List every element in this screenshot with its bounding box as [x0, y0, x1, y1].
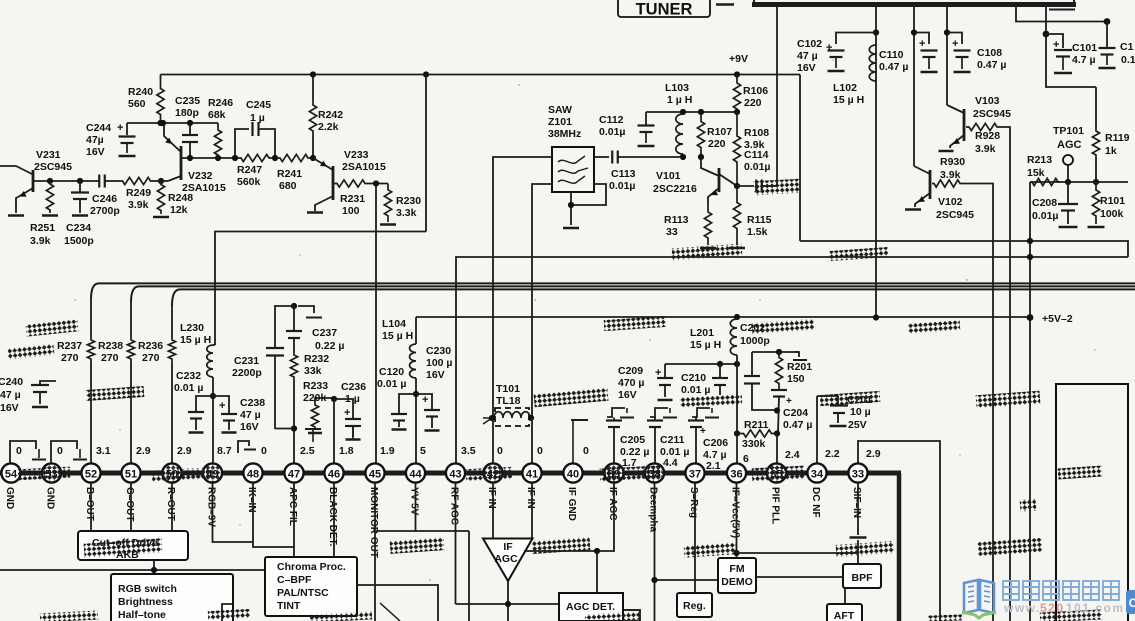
svg-text:44: 44 [409, 468, 422, 480]
svg-text:1000p: 1000p [740, 335, 770, 347]
node R246 bottom [215, 155, 221, 161]
svg-text:4.4: 4.4 [663, 457, 678, 469]
svg-text:C211: C211 [660, 434, 685, 446]
svg-text:IF IN: IF IN [486, 487, 497, 509]
waveform glyph pin48 [238, 441, 249, 453]
svg-text:+9V: +9V [729, 53, 748, 65]
svg-text:RGB switch: RGB switch [118, 583, 177, 595]
resistor R108 [733, 112, 740, 186]
svg-text:AGC: AGC [1057, 139, 1082, 151]
svg-text:R232: R232 [304, 353, 329, 365]
svg-text:16V: 16V [86, 146, 105, 158]
wire V231 base [33, 180, 95, 182]
svg-text:C234: C234 [66, 222, 91, 234]
node AGC drop a [1027, 238, 1033, 244]
hatch bus 42-43 [466, 467, 513, 481]
svg-text:2.4: 2.4 [785, 449, 800, 461]
node fm demo left [651, 577, 657, 583]
svg-text:RF AGC: RF AGC [448, 487, 459, 525]
svg-text:3.5: 3.5 [461, 445, 476, 457]
svg-text:51: 51 [125, 468, 137, 480]
svg-text:0.1: 0.1 [1121, 54, 1135, 66]
node L201 bottom [734, 361, 740, 367]
svg-text:R211: R211 [744, 419, 769, 431]
svg-text:33: 33 [852, 468, 864, 480]
svg-text:+: + [1053, 39, 1059, 51]
svg-text:BPF: BPF [852, 572, 874, 584]
svg-text:0.01µ: 0.01µ [599, 126, 626, 138]
svg-text:0: 0 [16, 445, 22, 457]
wire pin45 monitor down [374, 483, 376, 621]
node R108 top [734, 109, 740, 115]
capacitor C232 [196, 396, 213, 411]
node C235 bottom [187, 155, 193, 161]
capacitor C103 [1106, 22, 1108, 48]
svg-text:C244: C244 [86, 122, 111, 134]
wire AGC node [1030, 181, 1128, 183]
ground V103 [939, 150, 954, 153]
svg-text:C102: C102 [797, 38, 822, 50]
resistor R115 [733, 186, 740, 245]
svg-text:270: 270 [142, 352, 160, 364]
capacitor C112 [638, 124, 655, 126]
svg-text:2SA1015: 2SA1015 [182, 182, 226, 194]
svg-text:8.7: 8.7 [217, 445, 232, 457]
wire C209 C210 rail [665, 363, 738, 365]
node APC top [291, 303, 297, 309]
node V232 emitter [160, 120, 166, 126]
hatch bottom mid a [310, 611, 372, 621]
wire pin52 to cutoff [90, 483, 92, 532]
svg-text:15 µ H: 15 µ H [180, 334, 211, 346]
svg-text:15 µ H: 15 µ H [690, 339, 721, 351]
waveform glyph C211 [650, 408, 668, 417]
svg-text:R119: R119 [1105, 132, 1130, 144]
svg-text:47 µ: 47 µ [240, 409, 261, 421]
node rail-x426 [423, 71, 429, 77]
svg-text:0.01µ: 0.01µ [1032, 210, 1059, 222]
node TP101 [1065, 179, 1071, 185]
resistor R233 [315, 398, 334, 402]
svg-text:Deempha: Deempha [647, 487, 658, 532]
svg-text:2.5: 2.5 [300, 445, 315, 457]
svg-text:IF–Vcc(5V): IF–Vcc(5V) [729, 487, 740, 538]
inductor L230 column [213, 344, 215, 346]
svg-text:R230: R230 [396, 195, 421, 207]
svg-text:0: 0 [537, 445, 543, 457]
svg-text:C236: C236 [341, 381, 366, 393]
resistor R232 [290, 352, 297, 380]
hatch triangle right [532, 537, 591, 554]
svg-text:220k: 220k [303, 392, 327, 404]
IC pin 53 GND [42, 463, 61, 482]
svg-text:1 µ: 1 µ [345, 393, 360, 405]
svg-text:45: 45 [369, 468, 381, 480]
wire L103 top [646, 111, 737, 113]
wire +5V-2 line [416, 316, 1030, 318]
IC pin 33 SIF–IN [848, 463, 867, 482]
resistor R107 [697, 114, 704, 155]
svg-text:APC FIL: APC FIL [287, 487, 298, 526]
inductor L103 [676, 114, 683, 154]
svg-text:6: 6 [743, 453, 749, 465]
IC shield box bottom edge (top bar) [752, 2, 1076, 7]
wire sif agc link [737, 552, 859, 554]
IC pin 52 B–OUT [81, 463, 100, 482]
waveform glyph pin47 upper [305, 428, 321, 430]
svg-text:1k: 1k [1105, 145, 1117, 157]
svg-text:+: + [219, 400, 225, 412]
svg-text:PAL/NTSC: PAL/NTSC [277, 587, 329, 599]
wire C244-C235 top [127, 122, 218, 124]
wire IC drop V103 [946, 6, 948, 105]
ground SIF [850, 536, 867, 539]
IC pin 34 DC NF [807, 463, 826, 482]
svg-text:IF: IF [503, 541, 513, 553]
svg-text:R107: R107 [707, 126, 732, 138]
svg-text:YV 5V: YV 5V [408, 487, 419, 516]
svg-text:101.com: 101.com [1066, 601, 1125, 615]
wire +9V rail [161, 74, 801, 76]
node C235 top [187, 120, 193, 126]
svg-text:0.01µ: 0.01µ [744, 161, 771, 173]
transistor V232 [180, 146, 183, 180]
svg-text:AGC DET.: AGC DET. [566, 601, 615, 613]
svg-text:C110: C110 [879, 49, 904, 61]
hatch C114 [754, 179, 801, 195]
svg-text:R106: R106 [743, 85, 768, 97]
wire pin50 to cutoff [171, 483, 173, 532]
hatch bus 38-39 [600, 465, 663, 481]
svg-text:560: 560 [128, 98, 146, 110]
resistor R928 [966, 123, 1000, 130]
svg-text:L102: L102 [833, 82, 857, 94]
capacitor C108 [947, 33, 962, 45]
svg-text:3.9k: 3.9k [30, 235, 51, 247]
wire C114 to IC [776, 6, 778, 186]
svg-text:3.9k: 3.9k [128, 199, 149, 211]
svg-text:DEMO: DEMO [721, 576, 753, 588]
transformer T101 [495, 408, 529, 426]
svg-text:40: 40 [567, 468, 579, 480]
svg-text:IF AGC: IF AGC [607, 487, 618, 521]
watermark book icon [964, 580, 994, 613]
IC pin 48 IK–IN [243, 463, 262, 482]
svg-text:C204: C204 [783, 407, 808, 419]
svg-text:+5V–2: +5V–2 [1042, 313, 1073, 325]
resistor R236 column [171, 306, 173, 337]
svg-text:100: 100 [342, 205, 360, 217]
svg-text:SAW: SAW [548, 104, 572, 116]
svg-text:2SC945: 2SC945 [973, 108, 1011, 120]
capacitor C114 [737, 185, 754, 187]
resistor R240 [160, 75, 162, 81]
hatch half-tone [208, 609, 250, 620]
hatch R237 area [86, 386, 145, 401]
hatch sif ground [836, 541, 895, 557]
wire pin44 below [415, 483, 417, 532]
svg-text:46: 46 [328, 468, 340, 480]
svg-text:12k: 12k [170, 204, 188, 216]
node apex agc det [505, 601, 511, 607]
svg-text:47: 47 [288, 468, 300, 480]
svg-text:220: 220 [708, 138, 726, 150]
svg-text:TINT: TINT [277, 600, 301, 612]
svg-text:+: + [700, 426, 706, 437]
svg-text:560k: 560k [237, 176, 261, 188]
resistor R238 column [130, 302, 132, 337]
hatch watermark top [978, 538, 1043, 556]
svg-text:GND: GND [4, 487, 15, 509]
ground hatch R113 R115 [672, 244, 743, 261]
box small AGC aux [623, 610, 640, 621]
svg-text:C237: C237 [312, 327, 337, 339]
svg-text:C205: C205 [620, 434, 645, 446]
waveform glyph R201 [795, 352, 799, 357]
svg-text:2.1: 2.1 [706, 460, 721, 472]
hatch bottom left corner [40, 610, 98, 621]
svg-text:16V: 16V [0, 402, 19, 414]
wire SAW pin2 [532, 184, 552, 418]
resistor R101 [1092, 182, 1099, 224]
svg-text:3.3k: 3.3k [396, 207, 417, 219]
svg-text:+: + [919, 38, 925, 50]
svg-text:www.: www. [1003, 601, 1041, 615]
svg-text:Brightness: Brightness [118, 596, 173, 608]
IC pin 50 R–OUT [162, 463, 181, 482]
wire pin34 column [816, 396, 818, 463]
wire V232 base rail [181, 157, 238, 159]
wire AGC line to pin43 [456, 257, 1128, 463]
capacitor C246 [98, 175, 100, 188]
svg-text:+: + [655, 367, 661, 379]
hatch left a [26, 319, 79, 336]
wire pin36 stub [736, 434, 738, 464]
svg-text:R233: R233 [303, 380, 328, 392]
svg-text:R930: R930 [940, 156, 965, 168]
ground V233 [307, 211, 323, 214]
node C114 [734, 183, 740, 189]
transistor V231 [0, 166, 33, 175]
waveform glyph pin53 [51, 441, 77, 463]
svg-text:2700p: 2700p [90, 205, 120, 217]
waveform glyph pin40 [571, 419, 588, 421]
svg-text:R236: R236 [138, 340, 163, 352]
hatch pin36 branch [684, 542, 737, 558]
node C210 top [717, 361, 723, 367]
svg-text:DC NF: DC NF [810, 487, 821, 518]
svg-text:R247: R247 [237, 164, 262, 176]
svg-text:0: 0 [261, 445, 267, 457]
svg-text:G–OUT: G–OUT [124, 487, 135, 521]
svg-text:PIF PLL: PIF PLL [769, 487, 780, 524]
svg-text:C210: C210 [681, 372, 706, 384]
svg-text:T101: T101 [496, 383, 520, 395]
transistor V102 [914, 166, 930, 174]
capacitor C202 [751, 352, 753, 375]
node rail-R106 [734, 71, 740, 77]
wire IC to R119 [1046, 34, 1096, 87]
svg-text:100 µ: 100 µ [426, 357, 453, 369]
svg-text:0.47 µ: 0.47 µ [783, 419, 812, 431]
node R231-R230 [373, 180, 379, 186]
svg-text:C209: C209 [618, 365, 643, 377]
hatch C201 label [820, 391, 881, 406]
wire fm demo left [655, 579, 719, 581]
svg-text:C230: C230 [426, 345, 451, 357]
svg-text:Chroma Proc.: Chroma Proc. [277, 561, 346, 573]
node R211 right [774, 430, 780, 436]
svg-text:V103: V103 [975, 95, 1000, 107]
svg-text:S–Reg: S–Reg [688, 487, 699, 518]
resistor R930 [932, 180, 962, 187]
IC pin 39 IF AGC [604, 463, 623, 482]
node C245 right [272, 155, 278, 161]
wire triangle apex down [507, 581, 509, 621]
svg-text:270: 270 [61, 352, 79, 364]
svg-text:TUNER: TUNER [636, 1, 693, 19]
svg-text:15 µ H: 15 µ H [382, 330, 413, 342]
IC pin 37 S–Reg [685, 463, 704, 482]
svg-text:1 µ: 1 µ [250, 112, 265, 124]
svg-text:C232: C232 [176, 370, 201, 382]
svg-text:BLACK DET.: BLACK DET. [327, 487, 338, 547]
box FM DEMO [718, 558, 756, 593]
IC pin 35 PIF PLL [767, 463, 786, 482]
wire pin43 below [455, 483, 457, 605]
op-amp IF AGC triangle [483, 539, 533, 582]
node C108 top [944, 29, 950, 35]
wire RGB bundle line2 [131, 286, 1135, 302]
capacitor C230 [416, 394, 432, 409]
waveform glyph APC [298, 306, 314, 313]
svg-text:680: 680 [279, 180, 297, 192]
svg-text:V231: V231 [36, 149, 61, 161]
resistor R248 [157, 181, 164, 214]
hatch bottom right corner [1040, 609, 1102, 621]
wire SAW input [493, 157, 552, 418]
wire +9V drop right [799, 75, 801, 242]
svg-text:+: + [826, 42, 832, 54]
waveform glyph C206 [692, 408, 710, 417]
svg-text:R240: R240 [128, 86, 153, 98]
wire stray diagonal [380, 603, 400, 621]
svg-text:470 µ: 470 µ [618, 377, 645, 389]
svg-text:L103: L103 [665, 82, 689, 94]
wire pin33 loop [858, 441, 940, 621]
IC pin 43 RF AGC [446, 463, 465, 482]
node C234 [77, 178, 83, 184]
svg-text:+: + [786, 396, 792, 407]
wire SAW ground [570, 192, 572, 225]
node R119 bottom [1093, 179, 1099, 185]
node R248 top [158, 178, 164, 184]
capacitor C231 [275, 306, 294, 347]
svg-text:2SA1015: 2SA1015 [342, 161, 386, 173]
hatch x1030 line [1020, 498, 1037, 511]
IC pin 45 MONITOR OUT [365, 463, 384, 482]
wire pin41 to triangle [531, 483, 533, 539]
hatch right mid a [830, 247, 889, 261]
wire pin39 below [524, 483, 614, 552]
box RGB switch [111, 574, 233, 621]
svg-text:C–BPF: C–BPF [277, 574, 312, 586]
node L103 top [680, 109, 686, 115]
node C102 top [873, 29, 879, 35]
svg-text:33k: 33k [304, 365, 322, 377]
svg-text:R113: R113 [664, 214, 689, 226]
resistor R211 [739, 430, 776, 437]
capacitor C237 [293, 306, 295, 330]
resistor R237 column [90, 299, 92, 337]
svg-text:Reg.: Reg. [683, 600, 706, 612]
svg-text:0.01 µ: 0.01 µ [377, 378, 406, 390]
svg-text:R242: R242 [318, 109, 343, 121]
wire IC drop V102 [913, 6, 915, 166]
node C103 top [1104, 18, 1111, 25]
svg-text:270: 270 [101, 352, 119, 364]
svg-text:180p: 180p [175, 107, 199, 119]
svg-text:R928: R928 [975, 130, 1000, 142]
node C101 top [1043, 31, 1050, 38]
wire pin47 to chroma [293, 483, 295, 558]
IC pin 51 G–OUT [121, 463, 140, 482]
box AGC DET [559, 593, 623, 621]
transistor V101 [701, 157, 719, 176]
svg-text:V233: V233 [344, 149, 369, 161]
svg-text:0.01 µ: 0.01 µ [681, 384, 710, 396]
svg-text:C240: C240 [0, 376, 23, 388]
svg-text:L104: L104 [382, 318, 406, 330]
capacitor C234 [79, 181, 81, 192]
transistor V103 [947, 105, 964, 113]
node R107 top [698, 109, 704, 115]
svg-text:R246: R246 [208, 97, 233, 109]
svg-text:C246: C246 [92, 193, 117, 205]
svg-text:V232: V232 [188, 170, 213, 182]
svg-text:2.9: 2.9 [866, 448, 881, 460]
svg-text:1.8: 1.8 [339, 445, 354, 457]
node T101 left [489, 415, 495, 421]
hatch C202 label [752, 319, 815, 334]
saw filter Z101 [552, 147, 594, 192]
wire x468 down [468, 531, 470, 621]
svg-text:47µ: 47µ [86, 134, 104, 146]
svg-text:34: 34 [811, 468, 824, 480]
capacitor C113 [594, 156, 609, 158]
node R251 [47, 178, 53, 184]
svg-text:3.1: 3.1 [96, 445, 111, 457]
svg-text:41: 41 [526, 468, 538, 480]
node BLACK DET top [331, 396, 337, 402]
capacitor C244 [126, 123, 128, 135]
svg-text:3.9k: 3.9k [975, 143, 996, 155]
svg-text:TL18: TL18 [496, 395, 521, 407]
IC pin 36 IF–Vcc(5V) [727, 463, 746, 482]
wire fm demo to bpf [756, 576, 843, 578]
node C245 left [232, 155, 238, 161]
svg-text:1500p: 1500p [64, 235, 94, 247]
resistor R241 [277, 154, 311, 161]
svg-text:2.2k: 2.2k [318, 121, 339, 133]
svg-text:RGB–9V: RGB–9V [205, 487, 216, 527]
capacitor C238 [213, 396, 229, 413]
wire R213 drop [1029, 182, 1031, 621]
hatch bus 35 [752, 466, 805, 482]
svg-text:0: 0 [57, 445, 63, 457]
svg-text:1.5k: 1.5k [747, 226, 768, 238]
svg-text:+: + [422, 394, 428, 406]
